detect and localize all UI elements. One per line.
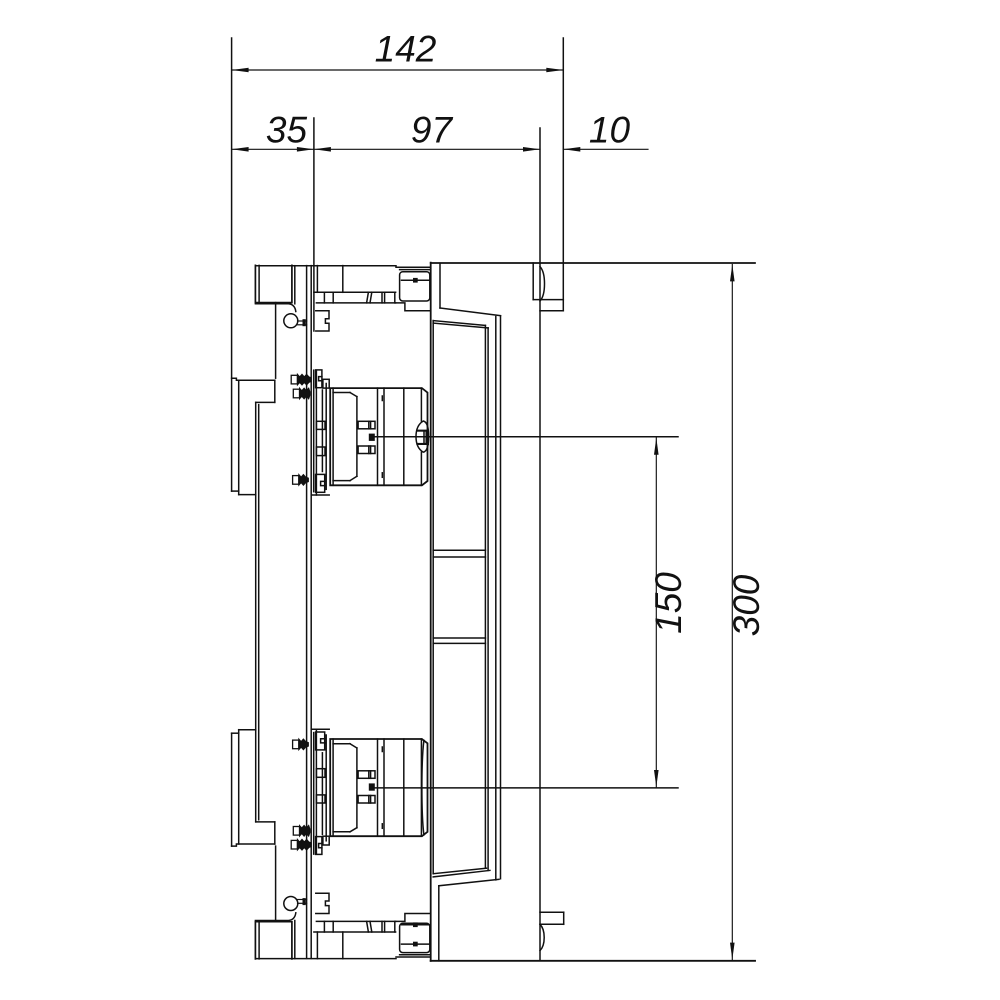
bottom cushion seam — [400, 954, 431, 956]
lower motor wall 2 — [383, 739, 385, 836]
dimension line 10 (outside arrow with tail) — [563, 147, 648, 152]
upper spacer block 2 — [358, 446, 375, 454]
upper flange right edge — [274, 380, 276, 402]
window top double slant — [433, 321, 488, 328]
lower bracket mid tab 2 — [316, 769, 325, 778]
top-left block — [255, 265, 292, 302]
housing top edge + 300 extension — [431, 262, 755, 264]
upper motor mounting rail — [325, 384, 327, 490]
top band right step — [396, 303, 431, 311]
window column right edge inner — [484, 325, 486, 868]
lower flange bottom edge — [232, 844, 275, 846]
lower flange lip inner edge — [238, 733, 240, 844]
mounting plate left face — [306, 266, 308, 959]
lower motor cup bottom lip — [333, 744, 357, 748]
bottom band left verticals — [294, 921, 296, 959]
dimension text 150 rotated — [648, 572, 689, 634]
round head screw bottom — [284, 897, 307, 911]
lower bracket mid tab 1 — [316, 795, 325, 803]
upper bracket rail right — [321, 390, 323, 472]
upper bracket top tab — [316, 370, 330, 388]
lower motor mounting rail — [325, 735, 327, 841]
top cushion seam — [400, 269, 431, 271]
top band bottom connector — [255, 304, 295, 312]
window column left edge — [432, 321, 434, 874]
dimension line 150 with arrows — [654, 438, 659, 787]
svg-text:97: 97 — [411, 110, 454, 151]
upper motor dome bar 1 — [416, 430, 429, 432]
upper motor wall 2 ticks — [381, 396, 383, 477]
housing bottom-right tab — [540, 912, 564, 924]
dimension line 300 with arrows — [730, 264, 735, 959]
upper flange lip inner edge — [238, 380, 240, 491]
bottom band mid shelf — [314, 931, 396, 933]
svg-text:35: 35 — [266, 110, 308, 151]
left datum lower segment — [231, 733, 233, 846]
dimension line 35 with arrows — [232, 147, 314, 152]
upper spacer block 1 — [358, 421, 375, 429]
dimension text 300 rotated — [726, 574, 767, 636]
window bottom double slant — [433, 868, 490, 877]
upper screw 2 — [293, 388, 310, 399]
dimension text 35 — [266, 110, 308, 151]
housing pocket right edge inner — [495, 317, 497, 880]
gasket strip left — [255, 402, 257, 822]
upper bracket mid tab 1 — [316, 421, 325, 429]
dimension text 10 — [589, 110, 631, 151]
dimension extension line x=563.3 (outer tab datum) — [562, 38, 564, 311]
block-to-flange connector lower — [275, 846, 277, 922]
upper motor wall 2 — [383, 388, 385, 485]
lower screw 1 — [291, 839, 311, 850]
upper motor center dome — [416, 421, 429, 452]
lower flange step — [256, 821, 275, 823]
bottom band top edge — [316, 920, 395, 922]
upper motor case outline — [330, 388, 427, 485]
lower bracket bottom tab — [316, 732, 325, 750]
block-to-flange connector — [275, 303, 277, 379]
upper motor wall 4 lower seg — [420, 452, 422, 485]
upper flange top edge — [232, 378, 275, 380]
retaining clip bottom — [316, 893, 329, 913]
top cushion inner line with screw dot — [402, 278, 430, 283]
lower motor cup inner wall — [356, 748, 358, 828]
svg-text:300: 300 — [726, 574, 767, 636]
lower spacer block 1 — [358, 796, 375, 804]
upper motor wall 1 — [377, 388, 379, 485]
plate edge segment lower motor — [313, 733, 315, 855]
bottom band divider — [342, 932, 344, 959]
svg-text:142: 142 — [375, 29, 437, 70]
top band divider 2 — [316, 266, 318, 293]
window column right edge outer — [487, 328, 489, 871]
upper coil gap block (filled) — [369, 434, 375, 441]
housing bottom edge + 300 extension — [431, 960, 755, 962]
upper motor dome bar 2 — [416, 443, 429, 445]
top band bottom edge — [316, 302, 395, 304]
housing top-right tab bulge arc — [540, 267, 545, 301]
lower bracket rail right — [321, 753, 323, 835]
lower motor wall 4 — [420, 739, 422, 836]
top band top edge — [256, 266, 431, 268]
dimension extension line x=540 (housing right edge datum, full height) — [539, 128, 541, 961]
upper bracket bottom edge — [312, 494, 330, 496]
gasket strip right — [258, 405, 260, 820]
top band left verticals — [294, 266, 296, 304]
bottom-left block — [255, 922, 292, 959]
bottom cushion inner lines with screw dots — [402, 922, 430, 946]
dimension extension line x=232 (left datum, also left flange edge) — [231, 38, 233, 491]
top band tabs — [324, 292, 394, 303]
housing pocket bottom edge — [439, 879, 499, 961]
bottom cushion rounded block — [400, 923, 430, 952]
housing pocket top edge — [440, 263, 501, 316]
upper flange bottom lip — [232, 491, 256, 495]
window divider 1 — [433, 549, 485, 551]
mounting plate right face — [310, 266, 312, 959]
top band mid shelf — [314, 291, 396, 293]
housing left edge — [430, 263, 432, 961]
upper motor dome slots — [424, 432, 426, 443]
lower motor wall 2 ticks — [381, 747, 383, 828]
dimension extension line y=437 (upper motor axis) — [374, 436, 678, 438]
lower bracket top tab — [316, 836, 330, 854]
upper flange step — [256, 401, 275, 403]
upper motor cup top lip — [333, 393, 357, 397]
dimension extension line y=788 (lower motor axis) — [374, 787, 678, 789]
upper bracket mid tab 2 — [316, 447, 325, 456]
bottom band right step — [396, 914, 431, 922]
housing pocket right edge outer — [500, 316, 502, 879]
upper motor wall 3 — [403, 388, 405, 485]
upper motor cup bottom lip — [333, 476, 357, 480]
retaining clip top — [316, 311, 329, 331]
lower flange top lip — [232, 730, 256, 734]
upper screw 3 — [293, 475, 309, 486]
upper bracket rail left — [315, 370, 317, 495]
bottom band tabs — [324, 921, 394, 932]
housing bottom-right bulge arc — [540, 924, 544, 950]
window divider 2 — [433, 556, 485, 558]
lower motor wall 3 — [403, 739, 405, 836]
upper screw 1 — [291, 374, 311, 385]
dimension line 97 with arrows — [314, 147, 540, 152]
lower motor cup top lip — [333, 828, 357, 832]
upper bracket bottom tab — [316, 474, 325, 492]
lower screw 2 — [293, 825, 310, 836]
upper motor wall 4 upper seg — [420, 388, 422, 421]
lower motor case outline — [330, 739, 427, 836]
lower motor wall 1 — [377, 739, 379, 836]
svg-text:150: 150 — [648, 572, 689, 634]
svg-text:10: 10 — [589, 110, 631, 151]
lower spacer block 2 — [358, 771, 375, 779]
dimension line 142 with arrows — [232, 68, 564, 73]
lower flange right edge — [274, 822, 276, 844]
top band divider — [342, 266, 344, 293]
bottom band bottom edge — [256, 957, 431, 959]
window divider 4 — [433, 642, 485, 644]
upper motor cup left wall — [332, 388, 334, 485]
round head screw top — [284, 314, 307, 328]
lower motor cap arc — [422, 740, 424, 834]
lower motor cup left wall — [332, 739, 334, 836]
bottom band top connector — [255, 913, 295, 921]
upper motor cup inner wall — [356, 397, 358, 477]
housing top-right tab — [533, 263, 563, 311]
top cushion rounded block — [400, 272, 430, 301]
plate edge segment upper motor — [313, 370, 315, 492]
lower bracket rail left — [315, 729, 317, 854]
lower screw 3 — [293, 739, 309, 750]
window divider 3 — [433, 637, 485, 639]
bottom band divider 2 — [316, 932, 318, 959]
lower coil gap block (filled) — [369, 783, 375, 790]
dimension extension line x=313.9 (plate right datum) — [313, 118, 315, 331]
dimension text 142 — [375, 29, 437, 70]
lower bracket bottom edge — [312, 728, 330, 730]
dimension text 97 — [411, 110, 454, 151]
